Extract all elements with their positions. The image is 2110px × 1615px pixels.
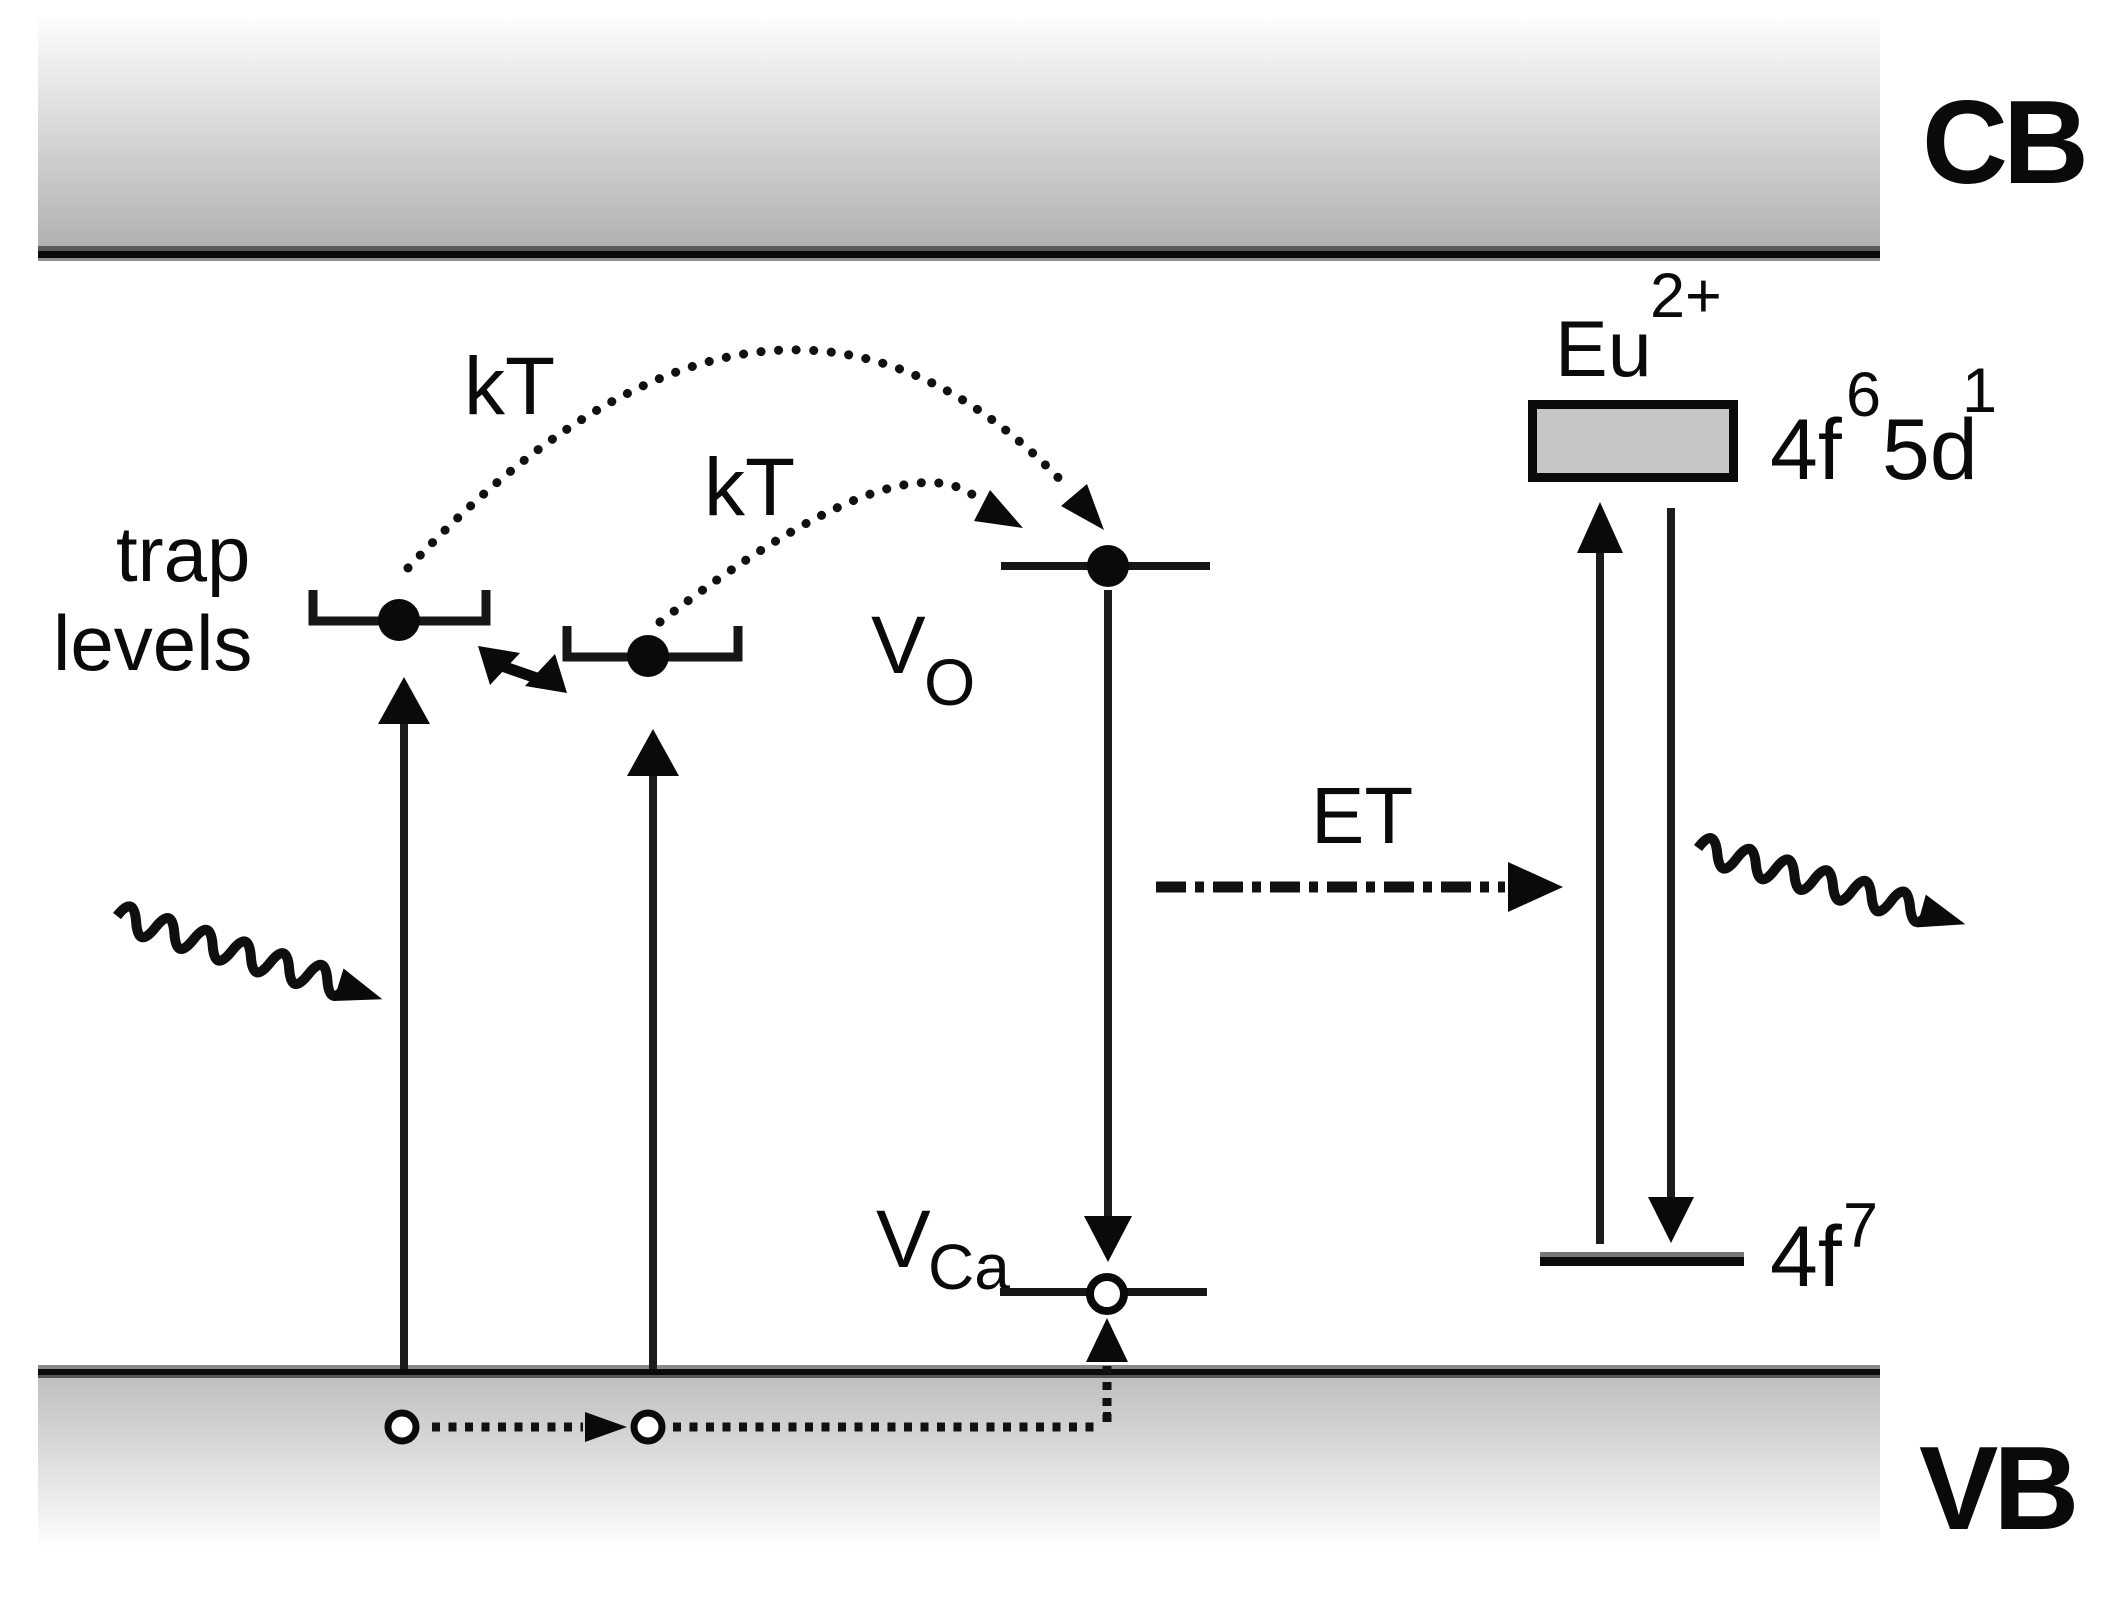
trap level 1	[313, 590, 486, 641]
valence band VB	[38, 1365, 1880, 1550]
double arrow between traps	[478, 646, 567, 693]
wavy excitation arrow (left)	[112, 901, 388, 1015]
kT arc 2 (trap2 to VO) dotted	[660, 483, 1023, 623]
down arrow VO to VCa	[1084, 590, 1132, 1262]
VO level	[1001, 545, 1210, 587]
svg-text:1: 1	[1962, 356, 1997, 426]
svg-text:kT: kT	[704, 442, 795, 533]
svg-text:7: 7	[1843, 1191, 1878, 1261]
VO label	[871, 600, 975, 719]
Eu2+ label	[1555, 261, 1722, 393]
svg-text:VB: VB	[1919, 1422, 2074, 1555]
Eu 4f65d1 excited state box	[1528, 400, 1738, 482]
svg-text:2+: 2+	[1650, 261, 1722, 331]
4f7 ground level	[1540, 1252, 1744, 1266]
svg-text:CB: CB	[1922, 76, 2084, 209]
dotted hole path to VCa	[673, 1412, 1111, 1427]
dotted arrow VB to VCa	[1086, 1318, 1128, 1424]
trap levels label	[53, 510, 252, 687]
svg-text:V: V	[871, 600, 926, 691]
trap level 2	[567, 626, 738, 677]
up arrow 1 (VB to trap 1)	[378, 677, 430, 1369]
svg-text:4f: 4f	[1770, 402, 1843, 498]
VCa level	[1000, 1277, 1207, 1311]
4f7 label	[1770, 1191, 1878, 1305]
4f6 5d1 label	[1770, 356, 1997, 498]
svg-text:O: O	[924, 645, 975, 719]
svg-text:kT: kT	[464, 341, 555, 432]
hole circle 2 in VB	[634, 1413, 662, 1441]
VCa label	[876, 1194, 1010, 1303]
svg-text:4f: 4f	[1770, 1209, 1843, 1305]
Eu excitation up arrow	[1577, 502, 1623, 1244]
svg-text:Eu: Eu	[1555, 304, 1652, 393]
svg-text:levels: levels	[53, 599, 252, 687]
svg-text:6: 6	[1846, 360, 1881, 430]
dotted hole arrow 1	[432, 1412, 627, 1442]
ET dash-dot arrow	[1156, 862, 1563, 912]
up arrow 2 (VB to trap 2)	[627, 729, 679, 1369]
conduction band CB	[38, 18, 1880, 261]
svg-text:Ca: Ca	[928, 1231, 1010, 1303]
Eu emission down arrow	[1648, 508, 1694, 1243]
svg-text:trap: trap	[116, 510, 250, 598]
svg-text:ET: ET	[1311, 771, 1413, 860]
svg-text:V: V	[876, 1194, 931, 1285]
hole circle 1 in VB	[388, 1413, 416, 1441]
kT arc 1 (trap1 to VO) dotted	[408, 350, 1104, 568]
wavy emission arrow (right)	[1693, 833, 1970, 940]
